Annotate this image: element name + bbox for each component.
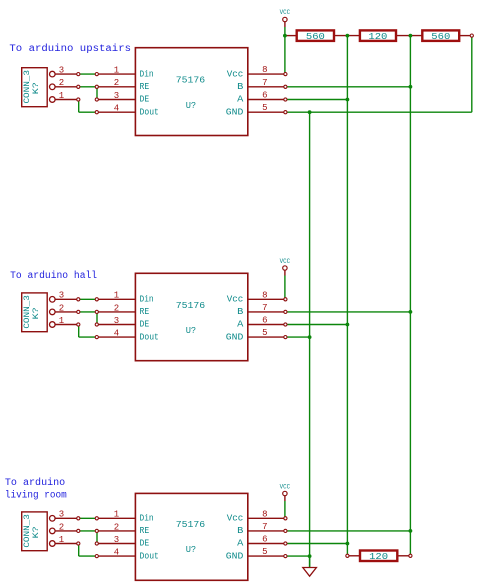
- svg-text:GND: GND: [226, 106, 244, 117]
- svg-text:3: 3: [59, 291, 64, 301]
- svg-text:RE: RE: [140, 525, 150, 536]
- svg-text:B: B: [237, 81, 244, 92]
- svg-text:2: 2: [59, 78, 64, 88]
- svg-text:1: 1: [59, 316, 64, 326]
- svg-text:6: 6: [262, 91, 267, 101]
- svg-text:7: 7: [262, 303, 267, 313]
- svg-text:VCC: VCC: [280, 484, 291, 491]
- svg-text:A: A: [237, 538, 244, 549]
- svg-text:CONN_3: CONN_3: [23, 70, 32, 104]
- svg-text:75176: 75176: [176, 519, 206, 530]
- svg-text:Vcc: Vcc: [227, 68, 244, 79]
- svg-text:2: 2: [114, 522, 119, 532]
- svg-text:To arduino upstairs: To arduino upstairs: [9, 43, 131, 54]
- svg-text:6: 6: [262, 535, 267, 545]
- svg-text:1: 1: [114, 510, 119, 520]
- svg-text:A: A: [237, 94, 244, 105]
- svg-text:120: 120: [368, 31, 387, 42]
- svg-text:RE: RE: [140, 306, 150, 317]
- svg-text:1: 1: [59, 91, 64, 101]
- svg-text:VCC: VCC: [280, 9, 291, 16]
- svg-text:Vcc: Vcc: [227, 513, 244, 524]
- svg-text:CONN_3: CONN_3: [23, 514, 32, 548]
- svg-text:3: 3: [114, 316, 119, 326]
- svg-text:2: 2: [114, 303, 119, 313]
- svg-text:Dout: Dout: [140, 550, 159, 561]
- svg-text:B: B: [237, 525, 244, 536]
- svg-text:4: 4: [114, 329, 119, 339]
- svg-text:To arduino hall: To arduino hall: [10, 270, 97, 281]
- svg-text:To arduino: To arduino: [5, 477, 65, 488]
- svg-text:1: 1: [114, 291, 119, 301]
- svg-text:K?: K?: [32, 526, 41, 538]
- svg-text:2: 2: [59, 522, 64, 532]
- svg-text:Din: Din: [140, 68, 154, 79]
- svg-text:3: 3: [114, 91, 119, 101]
- svg-text:K?: K?: [32, 307, 41, 319]
- svg-text:3: 3: [59, 510, 64, 520]
- svg-text:DE: DE: [140, 94, 150, 105]
- svg-text:Dout: Dout: [140, 106, 159, 117]
- svg-text:A: A: [237, 319, 244, 330]
- svg-text:U?: U?: [186, 544, 196, 555]
- svg-text:living room: living room: [5, 489, 67, 500]
- svg-text:8: 8: [262, 65, 267, 75]
- svg-text:DE: DE: [140, 538, 150, 549]
- svg-text:75176: 75176: [176, 75, 206, 86]
- svg-text:560: 560: [306, 31, 325, 42]
- svg-text:4: 4: [114, 104, 119, 114]
- svg-text:5: 5: [262, 328, 267, 338]
- svg-text:8: 8: [262, 509, 267, 519]
- svg-text:5: 5: [262, 547, 267, 557]
- svg-text:U?: U?: [186, 325, 196, 336]
- svg-text:7: 7: [262, 522, 267, 532]
- svg-text:VCC: VCC: [280, 258, 291, 265]
- svg-text:Din: Din: [140, 294, 154, 305]
- svg-text:120: 120: [369, 551, 388, 562]
- svg-text:CONN_3: CONN_3: [23, 295, 32, 329]
- svg-text:4: 4: [114, 548, 119, 558]
- svg-text:Din: Din: [140, 513, 154, 524]
- svg-text:DE: DE: [140, 319, 150, 330]
- svg-text:2: 2: [114, 78, 119, 88]
- svg-text:Dout: Dout: [140, 331, 159, 342]
- svg-text:2: 2: [59, 303, 64, 313]
- svg-text:U?: U?: [186, 100, 196, 111]
- svg-text:3: 3: [59, 66, 64, 76]
- svg-text:1: 1: [114, 66, 119, 76]
- svg-text:7: 7: [262, 78, 267, 88]
- svg-text:1: 1: [59, 535, 64, 545]
- svg-text:75176: 75176: [176, 300, 206, 311]
- svg-text:Vcc: Vcc: [227, 294, 244, 305]
- svg-text:RE: RE: [140, 81, 150, 92]
- svg-text:GND: GND: [226, 331, 244, 342]
- svg-text:8: 8: [262, 290, 267, 300]
- svg-text:GND: GND: [226, 550, 244, 561]
- svg-text:3: 3: [114, 535, 119, 545]
- svg-text:B: B: [237, 306, 244, 317]
- svg-text:6: 6: [262, 316, 267, 326]
- svg-text:5: 5: [262, 103, 267, 113]
- svg-text:K?: K?: [32, 82, 41, 94]
- svg-text:560: 560: [431, 31, 450, 42]
